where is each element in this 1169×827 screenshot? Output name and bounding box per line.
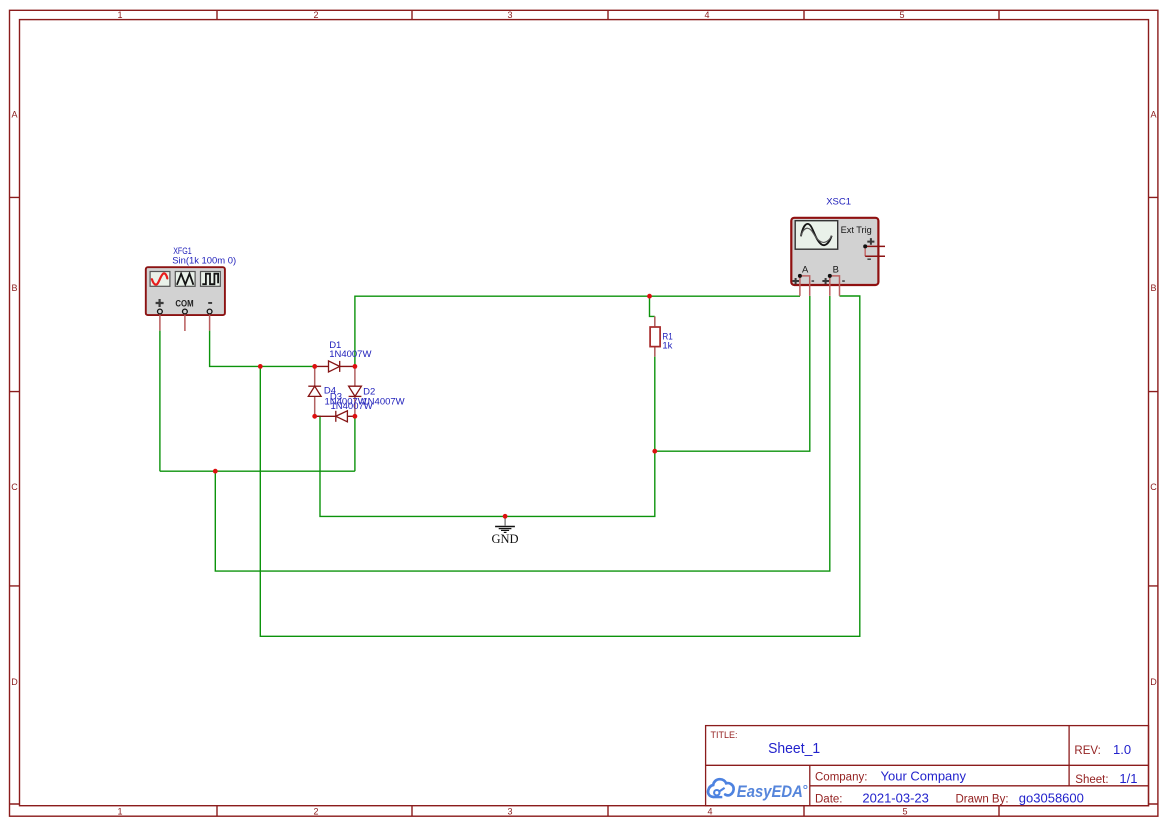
svg-text:EasyEDA: EasyEDA xyxy=(737,782,803,801)
svg-text:D: D xyxy=(1150,677,1157,687)
svg-text:A: A xyxy=(1150,110,1156,120)
svg-text:REV:: REV: xyxy=(1074,745,1100,757)
svg-text:Sheet_1: Sheet_1 xyxy=(768,741,820,757)
svg-text:C: C xyxy=(1150,482,1157,492)
svg-text:Company:: Company: xyxy=(815,772,867,784)
svg-text:B: B xyxy=(11,283,17,293)
svg-text:Sheet:: Sheet: xyxy=(1075,774,1108,786)
svg-text:D: D xyxy=(11,677,18,687)
svg-text:3: 3 xyxy=(507,10,512,20)
svg-text:B: B xyxy=(1150,283,1156,293)
svg-text:4: 4 xyxy=(707,807,712,817)
svg-text:Ext Trig: Ext Trig xyxy=(841,225,872,235)
svg-text:5: 5 xyxy=(902,807,907,817)
svg-text:XSC1: XSC1 xyxy=(826,197,851,208)
svg-text:Sin(1k 100m 0): Sin(1k 100m 0) xyxy=(172,256,236,267)
svg-text:1k: 1k xyxy=(662,341,672,352)
svg-text:2021-03-23: 2021-03-23 xyxy=(862,791,929,806)
svg-text:1: 1 xyxy=(117,807,122,817)
svg-text:1N4007W: 1N4007W xyxy=(329,349,371,360)
svg-text:1/1: 1/1 xyxy=(1119,771,1137,786)
svg-text:1N4007W: 1N4007W xyxy=(331,401,373,412)
svg-text:C: C xyxy=(11,482,18,492)
svg-text:A: A xyxy=(11,110,17,120)
svg-text:4: 4 xyxy=(704,10,709,20)
svg-text:TITLE:: TITLE: xyxy=(711,730,738,740)
svg-text:1.0: 1.0 xyxy=(1113,742,1131,757)
svg-text:A: A xyxy=(802,263,809,274)
svg-text:2: 2 xyxy=(313,10,318,20)
svg-text:Your Company: Your Company xyxy=(881,769,967,784)
svg-text:GND: GND xyxy=(491,532,518,546)
svg-text:1: 1 xyxy=(117,10,122,20)
svg-text:2: 2 xyxy=(313,807,318,817)
svg-text:Drawn By:: Drawn By: xyxy=(956,794,1009,806)
svg-text:Date:: Date: xyxy=(815,794,843,806)
svg-text:5: 5 xyxy=(899,10,904,20)
svg-text:B: B xyxy=(833,263,839,274)
svg-text:3: 3 xyxy=(507,807,512,817)
svg-text:COM: COM xyxy=(175,298,193,309)
svg-text:go3058600: go3058600 xyxy=(1019,791,1084,806)
